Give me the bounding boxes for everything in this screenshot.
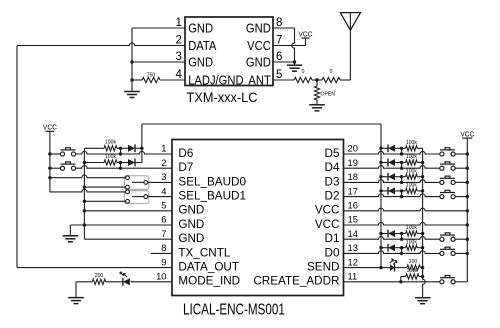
wire U2 pin11 CREATE_ADDR to switch xyxy=(344,281,440,283)
jumper contact J1 pin GND xyxy=(126,185,130,189)
ground G6 (right pulldown common) xyxy=(415,298,431,304)
node VCC rail row pin17 xyxy=(466,195,469,198)
svg-text:100k: 100k xyxy=(406,239,417,245)
diode D13 (pin13 to SEND net) xyxy=(388,244,395,252)
wire ground stem G4 xyxy=(69,225,71,236)
node SEND-net/branch pin18 xyxy=(379,175,382,178)
svg-text:4: 4 xyxy=(176,67,183,81)
wire U1 pin8 GND stub xyxy=(273,27,295,29)
U2 right pin label SEND (pin 12) xyxy=(307,261,339,274)
wire left ground vertical (net GNDL) xyxy=(83,148,85,239)
svg-text:20: 20 xyxy=(348,143,358,154)
node net B/branch pin18 xyxy=(421,175,424,178)
wire SEND-net to diode pin20 xyxy=(381,147,388,149)
wire DATA net bottom: to U2 DATA_OUT pin 9 xyxy=(17,267,172,269)
U1 pin number 8 xyxy=(276,15,283,29)
U2 left pin label SEL_BAUD0 (pin 3) xyxy=(178,175,246,188)
wire 100k branch row 2 xyxy=(84,162,104,164)
wire U2 pin20 to switch xyxy=(344,151,440,154)
U2 right pin label D4 (pin 19) xyxy=(325,161,340,174)
U2 pin number 3 xyxy=(161,171,166,182)
svg-text:10: 10 xyxy=(156,271,166,282)
svg-text:3: 3 xyxy=(176,49,183,63)
node VCC rail row pin14 xyxy=(466,238,469,241)
node VCC rail row pin19 xyxy=(466,167,469,170)
wire U2 pin17 to switch xyxy=(344,194,440,197)
U1 right pin label GND (pin 6) xyxy=(246,54,271,69)
svg-text:2: 2 xyxy=(176,32,182,46)
wire U1 pin1 GND to left rail xyxy=(132,27,185,29)
wire branch to tick row 1 xyxy=(117,147,128,149)
svg-text:MODE_IND: MODE_IND xyxy=(178,275,240,288)
svg-text:VCC: VCC xyxy=(315,218,340,231)
wire pin8-to-pin6 vertical (hops pin7 wire) xyxy=(292,28,295,65)
U2 right pin label D1 (pin 14) xyxy=(325,232,340,245)
node pin wire/tick row pin20 xyxy=(400,152,403,155)
node pin11 wire/branch xyxy=(399,280,402,283)
wire U2 pin19 to switch xyxy=(344,166,440,169)
svg-text:100k: 100k xyxy=(105,154,116,160)
wire tick junction row 2 xyxy=(120,163,122,169)
node SEND-net/branch pin20 xyxy=(379,147,382,150)
wire pin11 branch to resistor xyxy=(401,276,406,278)
wire diode to resistor pin19 xyxy=(395,162,406,164)
svg-text:18: 18 xyxy=(348,171,358,182)
wire U2 pin15 VCC to rail xyxy=(344,222,468,225)
svg-text:VCC: VCC xyxy=(460,131,474,138)
svg-text:12: 12 xyxy=(348,256,358,267)
node SEND-net/branch pin17 xyxy=(379,189,382,192)
svg-text:9: 9 xyxy=(161,256,166,267)
svg-text:TXM-xxx-LC: TXM-xxx-LC xyxy=(187,89,258,105)
U2 right pin label D5 (pin 20) xyxy=(325,147,340,160)
node junction pin3/rail xyxy=(130,60,133,63)
wire switch S13 to VCC rail xyxy=(455,252,467,254)
power VCC symbol left rail xyxy=(43,124,57,131)
diode D17 (pin17 to SEND net) xyxy=(388,187,395,195)
wire diode to common vertical row 2 xyxy=(135,162,142,164)
svg-text:0: 0 xyxy=(302,69,305,75)
wire left VCC rail vertical xyxy=(49,131,51,192)
svg-text:100k: 100k xyxy=(406,140,417,146)
svg-text:8: 8 xyxy=(276,15,283,29)
svg-text:3: 3 xyxy=(161,171,166,182)
wire resistor to net B pin11 xyxy=(419,276,423,278)
svg-text:LICAL-ENC-MS001: LICAL-ENC-MS001 xyxy=(183,300,285,318)
svg-text:DATA_OUT: DATA_OUT xyxy=(178,261,239,274)
wire R200L to ground corner xyxy=(76,281,92,283)
svg-text:OPEN: OPEN xyxy=(321,92,336,98)
wire right VCC rail vertical xyxy=(466,138,468,282)
node branch tick top pin14 xyxy=(400,232,403,235)
jumper contact J2 pin VCC xyxy=(126,190,130,194)
wire 100k branch row 1 xyxy=(84,147,104,149)
svg-text:100k: 100k xyxy=(105,140,116,146)
wire resistor to net B pin14 xyxy=(417,233,422,235)
pushbutton switch S14 xyxy=(440,233,455,241)
wire U1 pin7 VCC stub xyxy=(273,45,306,47)
svg-text:D5: D5 xyxy=(325,147,340,160)
U2 pin number 10 xyxy=(156,271,166,282)
U1 left pin label DATA (pin 2) xyxy=(188,38,217,53)
U2 right pin label CREATE_ADDR (pin 11) xyxy=(253,275,339,288)
U1 right pin label VCC (pin 7) xyxy=(247,38,271,53)
node pin wire/tick row pin19 xyxy=(400,167,403,170)
svg-text:TX_CNTL: TX_CNTL xyxy=(178,246,230,259)
node junction on left ground vertical xyxy=(83,223,86,226)
svg-text:GND: GND xyxy=(178,204,204,217)
svg-text:100k: 100k xyxy=(406,183,417,189)
wire R-OPEN to ground xyxy=(316,100,318,105)
node SEND-net/branch pin19 xyxy=(379,161,382,164)
node branch tick top pin17 xyxy=(400,189,403,192)
svg-text:D6: D6 xyxy=(178,147,193,160)
node junction on left ground vertical xyxy=(83,200,86,203)
wire U2 pin10 MODE_IND to LED1 xyxy=(131,281,173,283)
node VCC rail row pin15 xyxy=(466,223,469,226)
jumper contact J1 pin common xyxy=(144,181,148,185)
resistor R100k pin17 pulldown value 100k xyxy=(406,183,418,194)
U2 left pin label SEL_BAUD1 (pin 4) xyxy=(178,190,246,203)
diode D18 (pin18 to SEND net) xyxy=(388,173,395,181)
resistor R200R value 200 (SEND LED series) xyxy=(407,259,421,270)
ground G1 below left rail xyxy=(124,92,140,98)
U2 left pin label MODE_IND (pin 10) xyxy=(178,275,240,288)
wire diode to resistor pin18 xyxy=(395,176,406,178)
node rail/jumper row xyxy=(48,176,51,179)
node net B/branch pin14 xyxy=(421,232,424,235)
node VCC rail row pin13 xyxy=(466,252,469,255)
wire ground stem G5 xyxy=(75,282,77,298)
U2 right pin label VCC (pin 15) xyxy=(315,218,340,231)
wire R750 to U1 pin4 xyxy=(160,79,185,81)
node pin wire/tick row pin18 xyxy=(400,181,403,184)
U2 right pin label D2 (pin 17) xyxy=(325,190,340,203)
wire resistor to net B pin18 xyxy=(417,176,422,178)
pushbutton switch S20 xyxy=(440,148,455,156)
svg-text:11: 11 xyxy=(348,271,358,282)
svg-text:SEND: SEND xyxy=(307,261,339,274)
svg-text:2: 2 xyxy=(161,157,166,168)
node net B/branch pin13 xyxy=(421,246,424,249)
svg-text:1: 1 xyxy=(176,15,183,29)
node junction pin6/ground stem xyxy=(293,60,296,63)
node rail/SW1 xyxy=(48,152,51,155)
svg-text:7: 7 xyxy=(161,228,166,239)
wire J2 common to U2 pin4 SEL_BAUD1 xyxy=(148,196,172,198)
svg-text:200: 200 xyxy=(409,259,418,265)
node VCC rail row pin16 xyxy=(466,209,469,212)
U2 pin number 7 xyxy=(161,228,166,239)
U2 right pin label D0 (pin 13) xyxy=(325,246,340,259)
U1 pin number 6 xyxy=(276,49,283,63)
U2 left pin label TX_CNTL (pin 8) xyxy=(178,246,230,259)
IC U2 title LICAL-ENC-MS001 xyxy=(183,300,285,318)
U2 left pin label GND (pin 7) xyxy=(178,232,204,245)
IC U1 TXM-xxx-LC body xyxy=(185,17,273,86)
diode D20 (pin20 to SEND net) xyxy=(388,144,395,152)
U2 pin number 2 xyxy=(161,157,166,168)
svg-text:5: 5 xyxy=(276,67,283,81)
wire switch S17 to VCC rail xyxy=(455,196,467,198)
wire ground to J2 bottom pin xyxy=(84,200,125,202)
svg-text:D1: D1 xyxy=(325,232,340,245)
U2 pin number 18 xyxy=(348,171,358,182)
wire diode to common vertical row 1 xyxy=(135,147,142,149)
U2 pin number 8 xyxy=(161,242,166,253)
U2 pin number 19 xyxy=(348,157,358,168)
wire rail to R750 xyxy=(132,79,142,81)
node junction on left ground vertical xyxy=(83,161,86,164)
svg-text:15: 15 xyxy=(348,214,358,225)
node branch tick bottom row 1 xyxy=(119,152,122,155)
ground G2 for U1 pins 8,6 xyxy=(287,65,302,71)
svg-text:200: 200 xyxy=(95,273,104,279)
wire pulldown-common right vertical (net B) xyxy=(423,148,426,297)
jumper contact J2 pin common xyxy=(144,195,148,199)
wire DATA net: U1 pin2 to far-left vertical xyxy=(17,43,185,46)
U2 pin number 16 xyxy=(348,200,358,211)
wire DATA net far-left vertical xyxy=(16,46,18,268)
wire SEND-net to diode pin13 xyxy=(381,247,388,249)
svg-text:14: 14 xyxy=(348,228,358,239)
U2 left pin label D7 (pin 2) xyxy=(178,161,193,174)
svg-text:100k: 100k xyxy=(406,168,417,174)
wire switch S19 to VCC rail xyxy=(455,167,467,169)
node branch tick top pin18 xyxy=(400,175,403,178)
wire tick junction row 1 xyxy=(120,148,122,154)
U2 pin number 15 xyxy=(348,214,358,225)
wire U1 pin5 ANT to R-0a xyxy=(273,79,294,81)
wire pin11 branch vertical xyxy=(400,277,402,282)
wire SEND-net right vertical (net A) xyxy=(380,124,382,268)
U2 left pin label GND (pin 6) xyxy=(178,218,204,231)
node net B/branch pin11 xyxy=(421,275,424,278)
svg-text:7: 7 xyxy=(276,32,282,46)
svg-text:6: 6 xyxy=(161,214,166,225)
jumper block J1 (SEL_BAUD0) outline xyxy=(124,176,148,190)
wire U2 pin13 to switch xyxy=(344,251,440,254)
wire switch S11 to VCC rail xyxy=(455,281,467,283)
svg-text:D2: D2 xyxy=(325,190,340,203)
left rail vertical (pins 1,3,4 to ground) xyxy=(131,28,133,92)
node net B/branch pin17 xyxy=(421,189,424,192)
U2 left pin label DATA_OUT (pin 9) xyxy=(178,261,239,274)
svg-text:0: 0 xyxy=(330,69,333,75)
svg-text:VCC: VCC xyxy=(247,38,271,53)
wire tick junction pin13 xyxy=(401,248,403,254)
wire rail to switch S2 xyxy=(50,167,61,169)
wire SEND net top horizontal xyxy=(142,123,381,125)
U2 pin number 6 xyxy=(161,214,166,225)
antenna ANT1 xyxy=(340,13,360,80)
node junction on left ground vertical xyxy=(83,209,86,212)
wire ground vertical to U2 pin5 GND xyxy=(84,210,172,212)
wire switch S2 to U2 pin 2 xyxy=(76,166,172,169)
svg-text:100k: 100k xyxy=(406,268,417,274)
diode D14 (pin14 to SEND net) xyxy=(388,230,395,238)
wire LED2 to R200R xyxy=(395,267,407,269)
power VCC symbol at U1 pin7 xyxy=(299,31,313,45)
wire R0b to antenna stem xyxy=(340,79,350,81)
svg-text:19: 19 xyxy=(348,157,358,168)
resistor R0b value 0 (antenna series) xyxy=(317,69,340,83)
wire U1 pin6 GND stub xyxy=(273,61,295,63)
U2 pin number 5 xyxy=(161,200,166,211)
wire U1 pin3 GND to left rail xyxy=(132,61,185,63)
svg-text:DATA: DATA xyxy=(188,38,217,53)
U1 left pin label LADJ/GND (pin 4) xyxy=(188,72,244,87)
resistor R-OPEN (to ground) xyxy=(314,80,335,100)
wire left diode-common vertical (net SEND) xyxy=(141,124,143,163)
U1 right pin label GND (pin 8) xyxy=(246,20,271,35)
resistor R0a value 0 (antenna series) xyxy=(294,69,312,83)
wire J2 common stub xyxy=(132,196,144,198)
node SEND-net/branch pin13 xyxy=(379,246,382,249)
U2 right pin label D3 (pin 18) xyxy=(325,175,340,188)
svg-text:SEL_BAUD1: SEL_BAUD1 xyxy=(178,190,246,203)
wire ground row to U2 pin6 GND xyxy=(70,224,172,226)
svg-text:100k: 100k xyxy=(406,225,417,231)
node rail/SW2 xyxy=(48,167,51,170)
wire net A to LED2 xyxy=(381,267,390,269)
jumper contact J2 pin GND xyxy=(126,199,130,203)
ground G5 (MODE_IND LED) xyxy=(68,298,84,304)
U1 pin number 4 xyxy=(176,67,183,81)
node diode common/branch1 xyxy=(140,147,143,150)
wire J1 common stub xyxy=(132,181,144,183)
node pin wire/tick row pin13 xyxy=(400,252,403,255)
node branch tick bottom row 2 xyxy=(119,167,122,170)
svg-text:D4: D4 xyxy=(325,161,340,174)
resistor R100k pin13 pulldown value 100k xyxy=(406,239,418,250)
svg-text:CREATE_ADDR: CREATE_ADDR xyxy=(253,275,339,288)
U1 left pin label GND (pin 1) xyxy=(188,20,213,35)
wire R0a to junction xyxy=(312,79,317,81)
U2 right pin label VCC (pin 16) xyxy=(315,204,340,217)
svg-text:13: 13 xyxy=(348,242,358,253)
svg-text:GND: GND xyxy=(246,54,271,69)
wire SEND-net to diode pin17 xyxy=(381,190,388,192)
wire switch S1 to U2 pin 1 xyxy=(76,151,172,154)
wire tick junction pin19 xyxy=(401,163,403,169)
resistor R100k CREATE_ADDR pulldown value 100k xyxy=(406,268,419,279)
U1 pin number 1 xyxy=(176,15,183,29)
wire U2 pin18 to switch xyxy=(344,180,440,183)
wire tick junction pin18 xyxy=(401,177,403,183)
diode D2 (to SEND net) xyxy=(128,159,135,167)
pushbutton switch S1 (D6) xyxy=(60,148,75,156)
node branch tick top row 2 xyxy=(119,161,122,164)
pushbutton switch S2 (D7) xyxy=(60,162,75,170)
U2 pin number 12 xyxy=(348,256,358,267)
wire diode to resistor pin14 xyxy=(395,233,406,235)
LED LED2 (SEND indicator) xyxy=(390,259,397,272)
U2 pin number 13 xyxy=(348,242,358,253)
svg-text:750: 750 xyxy=(147,72,156,78)
wire LED1 to R200L xyxy=(106,281,123,283)
pushbutton switch S11 (CREATE_ADDR) xyxy=(440,276,455,284)
resistor R100k pin18 pulldown value 100k xyxy=(406,168,418,179)
jumper contact J1 pin VCC xyxy=(126,176,130,180)
node SEND pin/net A xyxy=(379,266,382,269)
jumper block J2 (SEL_BAUD1) outline xyxy=(124,191,148,204)
U2 pin number 20 xyxy=(348,143,358,154)
U1 pin number 3 xyxy=(176,49,183,63)
svg-text:8: 8 xyxy=(161,242,166,253)
U2 pin number 4 xyxy=(161,185,166,196)
wire diode to resistor pin20 xyxy=(395,147,406,149)
resistor R100k pin14 pulldown value 100k xyxy=(406,225,418,236)
node net B/branch pin19 xyxy=(421,161,424,164)
svg-text:100k: 100k xyxy=(406,154,417,160)
wire tick junction pin20 xyxy=(401,148,403,154)
svg-text:LADJ/GND: LADJ/GND xyxy=(188,72,244,87)
node branch tick top pin19 xyxy=(400,161,403,164)
svg-text:ANT: ANT xyxy=(248,72,271,87)
resistor R200L value 200 (LED series) xyxy=(92,273,106,284)
wire J1 common to U2 pin3 SEL_BAUD0 xyxy=(148,181,172,183)
pushbutton switch S19 xyxy=(440,162,455,170)
node SEND-net/branch pin14 xyxy=(379,232,382,235)
diode D1 (to SEND net) xyxy=(128,144,135,152)
U2 pin number 17 xyxy=(348,185,358,196)
svg-text:SEL_BAUD0: SEL_BAUD0 xyxy=(178,175,246,188)
wire U2 pin8 TX_CNTL stub xyxy=(151,252,172,254)
diode D19 (pin19 to SEND net) xyxy=(388,159,395,167)
node junction on left ground vertical xyxy=(83,185,86,188)
wire rail to switch S1 xyxy=(50,153,61,155)
pushbutton switch S17 xyxy=(440,190,455,198)
wire rail to J1 top pin xyxy=(50,175,126,178)
U1 pin number 5 xyxy=(276,67,283,81)
svg-text:1: 1 xyxy=(161,143,166,154)
wire U2 pin16 VCC to rail xyxy=(344,208,468,211)
node junction rail/R750 row xyxy=(130,78,133,81)
wire tick junction pin17 xyxy=(401,191,403,197)
wire resistor to net B pin13 xyxy=(417,247,422,249)
node branch tick top row 1 xyxy=(119,147,122,150)
node antenna junction xyxy=(315,78,318,81)
node pin wire/tick row pin14 xyxy=(400,238,403,241)
node branch tick top pin20 xyxy=(400,147,403,150)
U1 right pin label ANT (pin 5) xyxy=(248,72,271,87)
wire rail corner to J2 top pin xyxy=(50,189,126,192)
svg-text:6: 6 xyxy=(276,49,283,63)
wire R200R to net B xyxy=(420,267,422,269)
wire switch S14 to VCC rail xyxy=(455,238,467,240)
power VCC symbol right rail xyxy=(460,131,474,138)
svg-text:GND: GND xyxy=(188,54,213,69)
svg-text:VCC: VCC xyxy=(315,204,340,217)
svg-text:D0: D0 xyxy=(325,246,340,259)
U1 pin number 2 xyxy=(176,32,182,46)
U2 left pin label D6 (pin 1) xyxy=(178,147,193,160)
wire SEND-net to diode pin14 xyxy=(381,233,388,235)
svg-text:4: 4 xyxy=(161,185,166,196)
svg-text:GND: GND xyxy=(188,20,213,35)
svg-text:GND: GND xyxy=(178,218,204,231)
wire SEND-net to diode pin18 xyxy=(381,176,388,178)
node R200R/net B xyxy=(421,266,424,269)
svg-text:D7: D7 xyxy=(178,161,193,174)
wire ground to J1 bottom pin xyxy=(84,186,125,188)
LED LED1 (MODE_IND indicator) xyxy=(120,272,130,286)
wire resistor to net B pin19 xyxy=(417,162,422,164)
U2 left pin label GND (pin 5) xyxy=(178,204,204,217)
wire U2 pin14 to switch xyxy=(344,237,440,240)
resistor R750 value 750 xyxy=(142,72,160,82)
